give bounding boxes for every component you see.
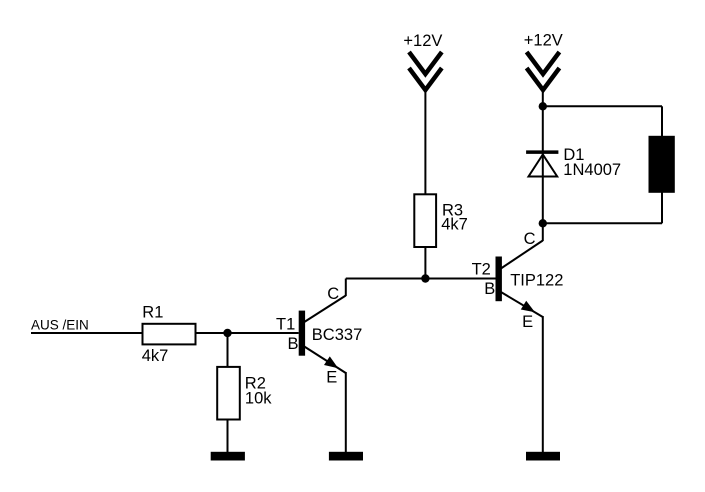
svg-text:B: B <box>288 335 299 353</box>
T1 emitter vertical to ground <box>345 372 347 452</box>
T2 base bar <box>496 257 502 302</box>
D1 cathode bar <box>526 150 558 154</box>
svg-text:C: C <box>327 285 339 303</box>
wire +12V to R3 <box>424 90 426 194</box>
svg-text:1N4007: 1N4007 <box>563 161 621 179</box>
node junction dot top (supply/diode/relay) <box>539 102 547 110</box>
wire R1 to T1 base <box>197 332 299 334</box>
T1 emitter arrow <box>324 356 338 368</box>
svg-text:BC337: BC337 <box>312 326 362 344</box>
wire relay top vertical <box>661 106 663 137</box>
power +12V right <box>524 32 563 91</box>
T1 emitter diagonal <box>304 346 346 373</box>
wire input to R1 <box>31 332 142 334</box>
svg-text:10k: 10k <box>245 390 272 408</box>
T2 emitter arrow <box>521 301 535 313</box>
svg-text:B: B <box>484 280 495 298</box>
svg-text:E: E <box>326 368 337 386</box>
ground under T1 emitter <box>329 452 363 461</box>
wire diode branch vertical <box>542 106 544 223</box>
T1 collector vertical <box>345 279 347 297</box>
T2 emitter vertical to ground <box>542 316 544 452</box>
T2 collector vertical <box>542 223 544 241</box>
power +12V left <box>403 32 442 90</box>
node junction dot bottom (diode/relay/collector) <box>539 219 547 227</box>
T1 collector diagonal <box>304 296 346 323</box>
svg-text:C: C <box>524 230 536 248</box>
wire +12V right down to node <box>542 90 544 106</box>
node junction dot at R3 bottom <box>421 274 429 282</box>
wire R3 to junction <box>424 248 426 279</box>
T2 collector diagonal <box>501 241 543 269</box>
wire relay bottom to node <box>543 222 662 224</box>
resistor R3 <box>414 194 468 247</box>
svg-text:R1: R1 <box>142 304 163 322</box>
resistor R2 <box>217 367 272 420</box>
wire T1 collector to T2 base <box>346 278 496 280</box>
svg-text:TIP122: TIP122 <box>510 271 563 289</box>
svg-text:4k7: 4k7 <box>441 215 468 233</box>
transistor T2 TIP122 <box>472 223 564 452</box>
wire top to relay <box>543 105 662 107</box>
wire relay bottom vertical <box>661 192 663 223</box>
svg-text:T2: T2 <box>472 261 491 279</box>
transistor T1 BC337 <box>276 279 362 453</box>
svg-text:E: E <box>522 313 533 331</box>
ground under R2 <box>211 452 245 461</box>
wire R2 to ground <box>227 421 229 453</box>
T1 base bar <box>299 311 305 356</box>
svg-text:T1: T1 <box>276 316 295 334</box>
node junction dot at R1/R2 <box>223 329 231 337</box>
ground under T2 emitter <box>526 452 560 461</box>
svg-text:+12V: +12V <box>403 32 442 50</box>
T2 emitter diagonal <box>501 292 543 317</box>
diode D1 <box>526 146 621 179</box>
svg-text:AUS /EIN: AUS /EIN <box>31 317 89 332</box>
relay coil <box>649 136 675 193</box>
resistor R1 <box>142 304 196 365</box>
svg-text:4k7: 4k7 <box>142 347 169 365</box>
wire junction down to R2 <box>227 333 229 366</box>
svg-text:+12V: +12V <box>524 32 563 50</box>
D1 triangle <box>529 155 558 177</box>
